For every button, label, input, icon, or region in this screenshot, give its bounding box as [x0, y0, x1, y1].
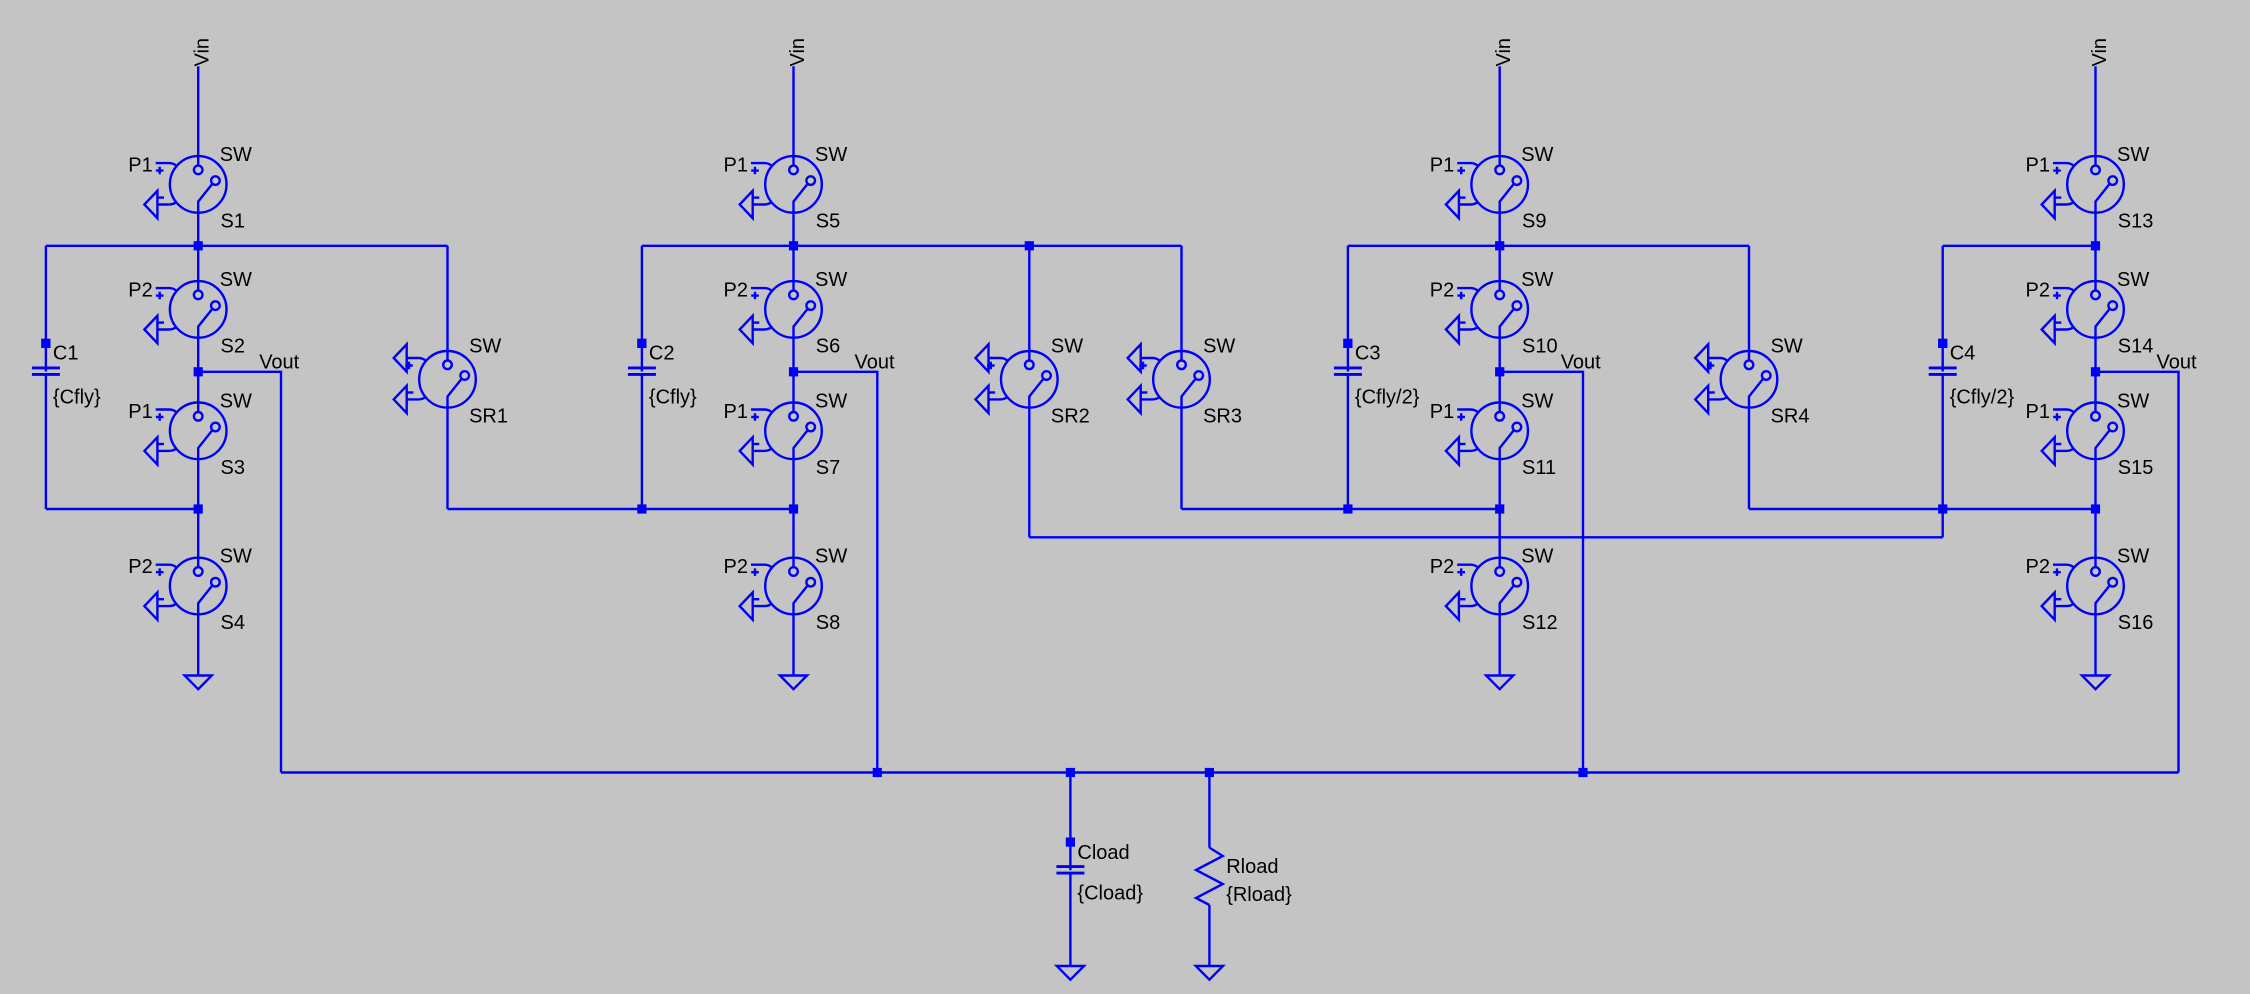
switch S3 (voltage-controlled switch, model SW) [128, 391, 252, 480]
junction S11/S12 [1495, 504, 1504, 513]
svg-text:{Cload}: {Cload} [1077, 883, 1143, 905]
junction C3 bottom [1343, 504, 1352, 513]
junction S2/S3/Vout [194, 367, 203, 376]
switch SR2 (voltage-controlled switch, model SW) [976, 336, 1090, 428]
junction rail / column 2 Vout tap [873, 768, 882, 777]
svg-text:SW: SW [220, 546, 252, 568]
svg-text:P1: P1 [128, 154, 152, 176]
svg-text:C3: C3 [1355, 343, 1381, 365]
wire SR2 branch vertical [1028, 246, 1030, 538]
ground column 1 [185, 676, 212, 690]
svg-text:{Rload}: {Rload} [1226, 884, 1292, 906]
wire Vin net, column 2 axis (S5-S8 to ground) [792, 66, 794, 675]
switch S2 (voltage-controlled switch, model SW) [128, 269, 252, 358]
junction rail / column 3 Vout tap [1578, 768, 1587, 777]
svg-text:P1: P1 [724, 401, 748, 423]
junction S15/S16 [2091, 504, 2100, 513]
ground column 3 [1486, 676, 1513, 690]
switch S13 (voltage-controlled switch, model SW) [2026, 144, 2154, 233]
wire Vout tap from S14-S15 node down to output rail [2096, 372, 2179, 773]
svg-text:P2: P2 [2026, 279, 2050, 301]
svg-text:SW: SW [1521, 269, 1553, 291]
svg-text:{Cfly}: {Cfly} [53, 387, 101, 409]
ground column 2 [780, 676, 807, 690]
wire C3 bottom lead [1347, 375, 1349, 510]
wire Rload bottom lead [1208, 905, 1210, 966]
wire SR1 branch vertical [446, 246, 448, 509]
ground Cload [1057, 966, 1084, 980]
wire Vin net, column 4 axis (S13-S16 to ground) [2094, 66, 2096, 675]
svg-text:P1: P1 [2026, 401, 2050, 423]
svg-text:Vin: Vin [192, 38, 214, 67]
junction S6/S7/Vout [789, 367, 798, 376]
svg-text:P1: P1 [1430, 401, 1454, 423]
ground column 4 [2082, 676, 2109, 690]
switch S16 (voltage-controlled switch, model SW) [2026, 546, 2154, 635]
svg-text:P2: P2 [1430, 556, 1454, 578]
wire Vout tap from S2-S3 node down to output rail [198, 372, 281, 773]
wire riser joining SR2 line to C4 bottom node [1941, 509, 1943, 537]
svg-text:SW: SW [1521, 391, 1553, 413]
svg-text:S14: S14 [2118, 336, 2154, 358]
svg-text:Vin: Vin [2089, 38, 2111, 67]
svg-text:SW: SW [815, 269, 847, 291]
svg-text:S8: S8 [816, 612, 840, 634]
switch S10 (voltage-controlled switch, model SW) [1430, 269, 1558, 358]
svg-text:S9: S9 [1522, 211, 1546, 233]
switch S7 (voltage-controlled switch, model SW) [724, 391, 848, 480]
junction S3/S4/C1 [194, 504, 203, 513]
junction C2 top pin [637, 339, 646, 348]
svg-text:P2: P2 [128, 279, 152, 301]
svg-text:Vin: Vin [787, 38, 809, 67]
svg-text:SW: SW [220, 269, 252, 291]
junction S9/S10/C3 [1495, 241, 1504, 250]
svg-text:S6: S6 [816, 336, 840, 358]
switch S1 (voltage-controlled switch, model SW) [128, 144, 252, 233]
junction C3 top pin [1343, 339, 1352, 348]
junction C2 bottom [637, 504, 646, 513]
switch SR3 (voltage-controlled switch, model SW) [1128, 336, 1242, 428]
wire Vin net, column 3 axis (S9-S12 to ground) [1498, 66, 1500, 675]
svg-text:Vout: Vout [1561, 351, 1601, 373]
svg-text:SW: SW [815, 391, 847, 413]
switch S14 (voltage-controlled switch, model SW) [2026, 269, 2154, 358]
svg-text:S1: S1 [221, 211, 245, 233]
junction S13/S14/C4 [2091, 241, 2100, 250]
svg-text:SR2: SR2 [1051, 406, 1090, 428]
wire Vin net, column 1 axis (S1-S4 to ground) [197, 66, 199, 675]
wire C1 bottom to S3-S4 node (row C, column 1) [46, 508, 198, 510]
wire node S9-S10 to C3 and SR4 (row A, column 3) [1348, 245, 1749, 247]
svg-text:C4: C4 [1950, 343, 1976, 365]
svg-text:SR4: SR4 [1771, 406, 1810, 428]
svg-text:Vout: Vout [2157, 351, 2197, 373]
svg-text:P1: P1 [1430, 154, 1454, 176]
svg-text:{Cfly/2}: {Cfly/2} [1950, 387, 2015, 409]
svg-text:SW: SW [220, 391, 252, 413]
wire node S5-S6 to C2, SR2 and SR3 (row A, column 2) [642, 245, 1182, 247]
junction S14/S15/Vout [2091, 367, 2100, 376]
svg-text:SW: SW [2117, 269, 2149, 291]
wire node S13-S14 to C4 (row A, column 4) [1943, 245, 2096, 247]
wire Vout output rail [281, 771, 2179, 773]
svg-text:P1: P1 [128, 401, 152, 423]
svg-text:S10: S10 [1522, 336, 1558, 358]
svg-text:C2: C2 [649, 343, 675, 365]
svg-text:Rload: Rload [1226, 856, 1278, 878]
wire C2 bottom lead [641, 375, 643, 510]
junction S10/S11/Vout [1495, 367, 1504, 376]
wire C4 top lead [1941, 246, 1943, 372]
resistor Rload [1196, 848, 1292, 906]
svg-text:P1: P1 [2026, 154, 2050, 176]
svg-text:P2: P2 [724, 279, 748, 301]
wire SR1 bottom across to C2 bottom and S7-S8 node [448, 508, 794, 510]
svg-text:S7: S7 [816, 457, 840, 479]
svg-text:SW: SW [1051, 336, 1083, 358]
wire Cload bottom lead [1069, 873, 1071, 966]
wire SR4 bottom across to C4 bottom and S15-S16 node [1749, 508, 2096, 510]
capacitor C4 [1929, 339, 2015, 409]
svg-text:S5: S5 [816, 211, 840, 233]
switch S9 (voltage-controlled switch, model SW) [1430, 144, 1554, 233]
svg-text:S11: S11 [1522, 457, 1556, 479]
wire Rload top lead [1208, 773, 1210, 848]
svg-text:S2: S2 [221, 336, 245, 358]
svg-text:SW: SW [1771, 336, 1803, 358]
svg-text:P2: P2 [1430, 279, 1454, 301]
svg-text:SW: SW [2117, 391, 2149, 413]
svg-text:Vout: Vout [855, 351, 895, 373]
switch S4 (voltage-controlled switch, model SW) [128, 546, 252, 635]
svg-text:{Cfly}: {Cfly} [649, 387, 697, 409]
capacitor C3 [1334, 339, 1420, 409]
junction S1/S2/C1/SR1 [194, 241, 203, 250]
svg-text:P1: P1 [724, 154, 748, 176]
svg-text:S12: S12 [1522, 612, 1558, 634]
svg-text:SR3: SR3 [1203, 406, 1242, 428]
svg-text:SW: SW [1521, 144, 1553, 166]
junction C1 top pin [41, 339, 50, 348]
junction SR2 top [1025, 241, 1034, 250]
capacitor C1 [32, 339, 101, 409]
svg-text:S3: S3 [221, 457, 245, 479]
wire C4 bottom lead [1941, 375, 1943, 510]
switch S12 (voltage-controlled switch, model SW) [1430, 546, 1558, 635]
wire Vout tap from S6-S7 node down to output rail [794, 372, 878, 773]
svg-text:SW: SW [1521, 546, 1553, 568]
switch S8 (voltage-controlled switch, model SW) [724, 546, 848, 635]
junction C4 top pin [1938, 339, 1947, 348]
svg-text:SW: SW [469, 336, 501, 358]
wire SR3 branch vertical [1180, 246, 1182, 509]
wire Cload top lead [1069, 773, 1071, 871]
svg-text:Cload: Cload [1077, 842, 1129, 864]
switch S6 (voltage-controlled switch, model SW) [724, 269, 848, 358]
junction C4 bottom/SR4/SR2 [1938, 504, 1947, 513]
switch S5 (voltage-controlled switch, model SW) [724, 144, 848, 233]
junction S7/S8 [789, 504, 798, 513]
svg-text:Vin: Vin [1493, 38, 1515, 67]
junction rail / Cload [1066, 768, 1075, 777]
switch SR4 (voltage-controlled switch, model SW) [1695, 336, 1809, 428]
svg-text:S16: S16 [2118, 612, 2154, 634]
svg-text:P2: P2 [724, 556, 748, 578]
svg-text:SW: SW [220, 144, 252, 166]
svg-text:SW: SW [815, 144, 847, 166]
ground Rload [1196, 966, 1223, 980]
wire C2 top lead [641, 246, 643, 372]
wire node S1-S2 to C1 and SR1 (row A, column 1) [46, 245, 448, 247]
wire C1 top lead [45, 246, 47, 372]
wire SR4 branch vertical [1748, 246, 1750, 509]
svg-text:P2: P2 [128, 556, 152, 578]
junction rail / Rload [1205, 768, 1214, 777]
capacitor Cload [1056, 838, 1143, 905]
svg-text:SW: SW [2117, 546, 2149, 568]
svg-text:P2: P2 [2026, 556, 2050, 578]
wire SR2 bottom across to C4 bottom node [1029, 536, 1942, 538]
switch S15 (voltage-controlled switch, model SW) [2026, 391, 2154, 480]
svg-text:SW: SW [815, 546, 847, 568]
wire C3 top lead [1347, 246, 1349, 372]
svg-text:Vout: Vout [259, 351, 299, 373]
svg-text:S15: S15 [2118, 457, 2154, 479]
svg-text:SR1: SR1 [469, 406, 508, 428]
svg-text:S4: S4 [221, 612, 245, 634]
svg-text:SW: SW [2117, 144, 2149, 166]
svg-text:SW: SW [1203, 336, 1235, 358]
switch S11 (voltage-controlled switch, model SW) [1430, 391, 1556, 480]
svg-text:{Cfly/2}: {Cfly/2} [1355, 387, 1420, 409]
wire Vout tap from S10-S11 node down to output rail [1500, 372, 1583, 773]
svg-text:S13: S13 [2118, 211, 2154, 233]
switch SR1 (voltage-controlled switch, model SW) [394, 336, 508, 428]
capacitor C2 [628, 339, 697, 409]
junction S5/S6/C2 [789, 241, 798, 250]
wire C1 bottom lead [45, 375, 47, 510]
svg-text:C1: C1 [53, 343, 79, 365]
wire SR3 bottom across to C3 bottom and S11-S12 node [1182, 508, 1500, 510]
